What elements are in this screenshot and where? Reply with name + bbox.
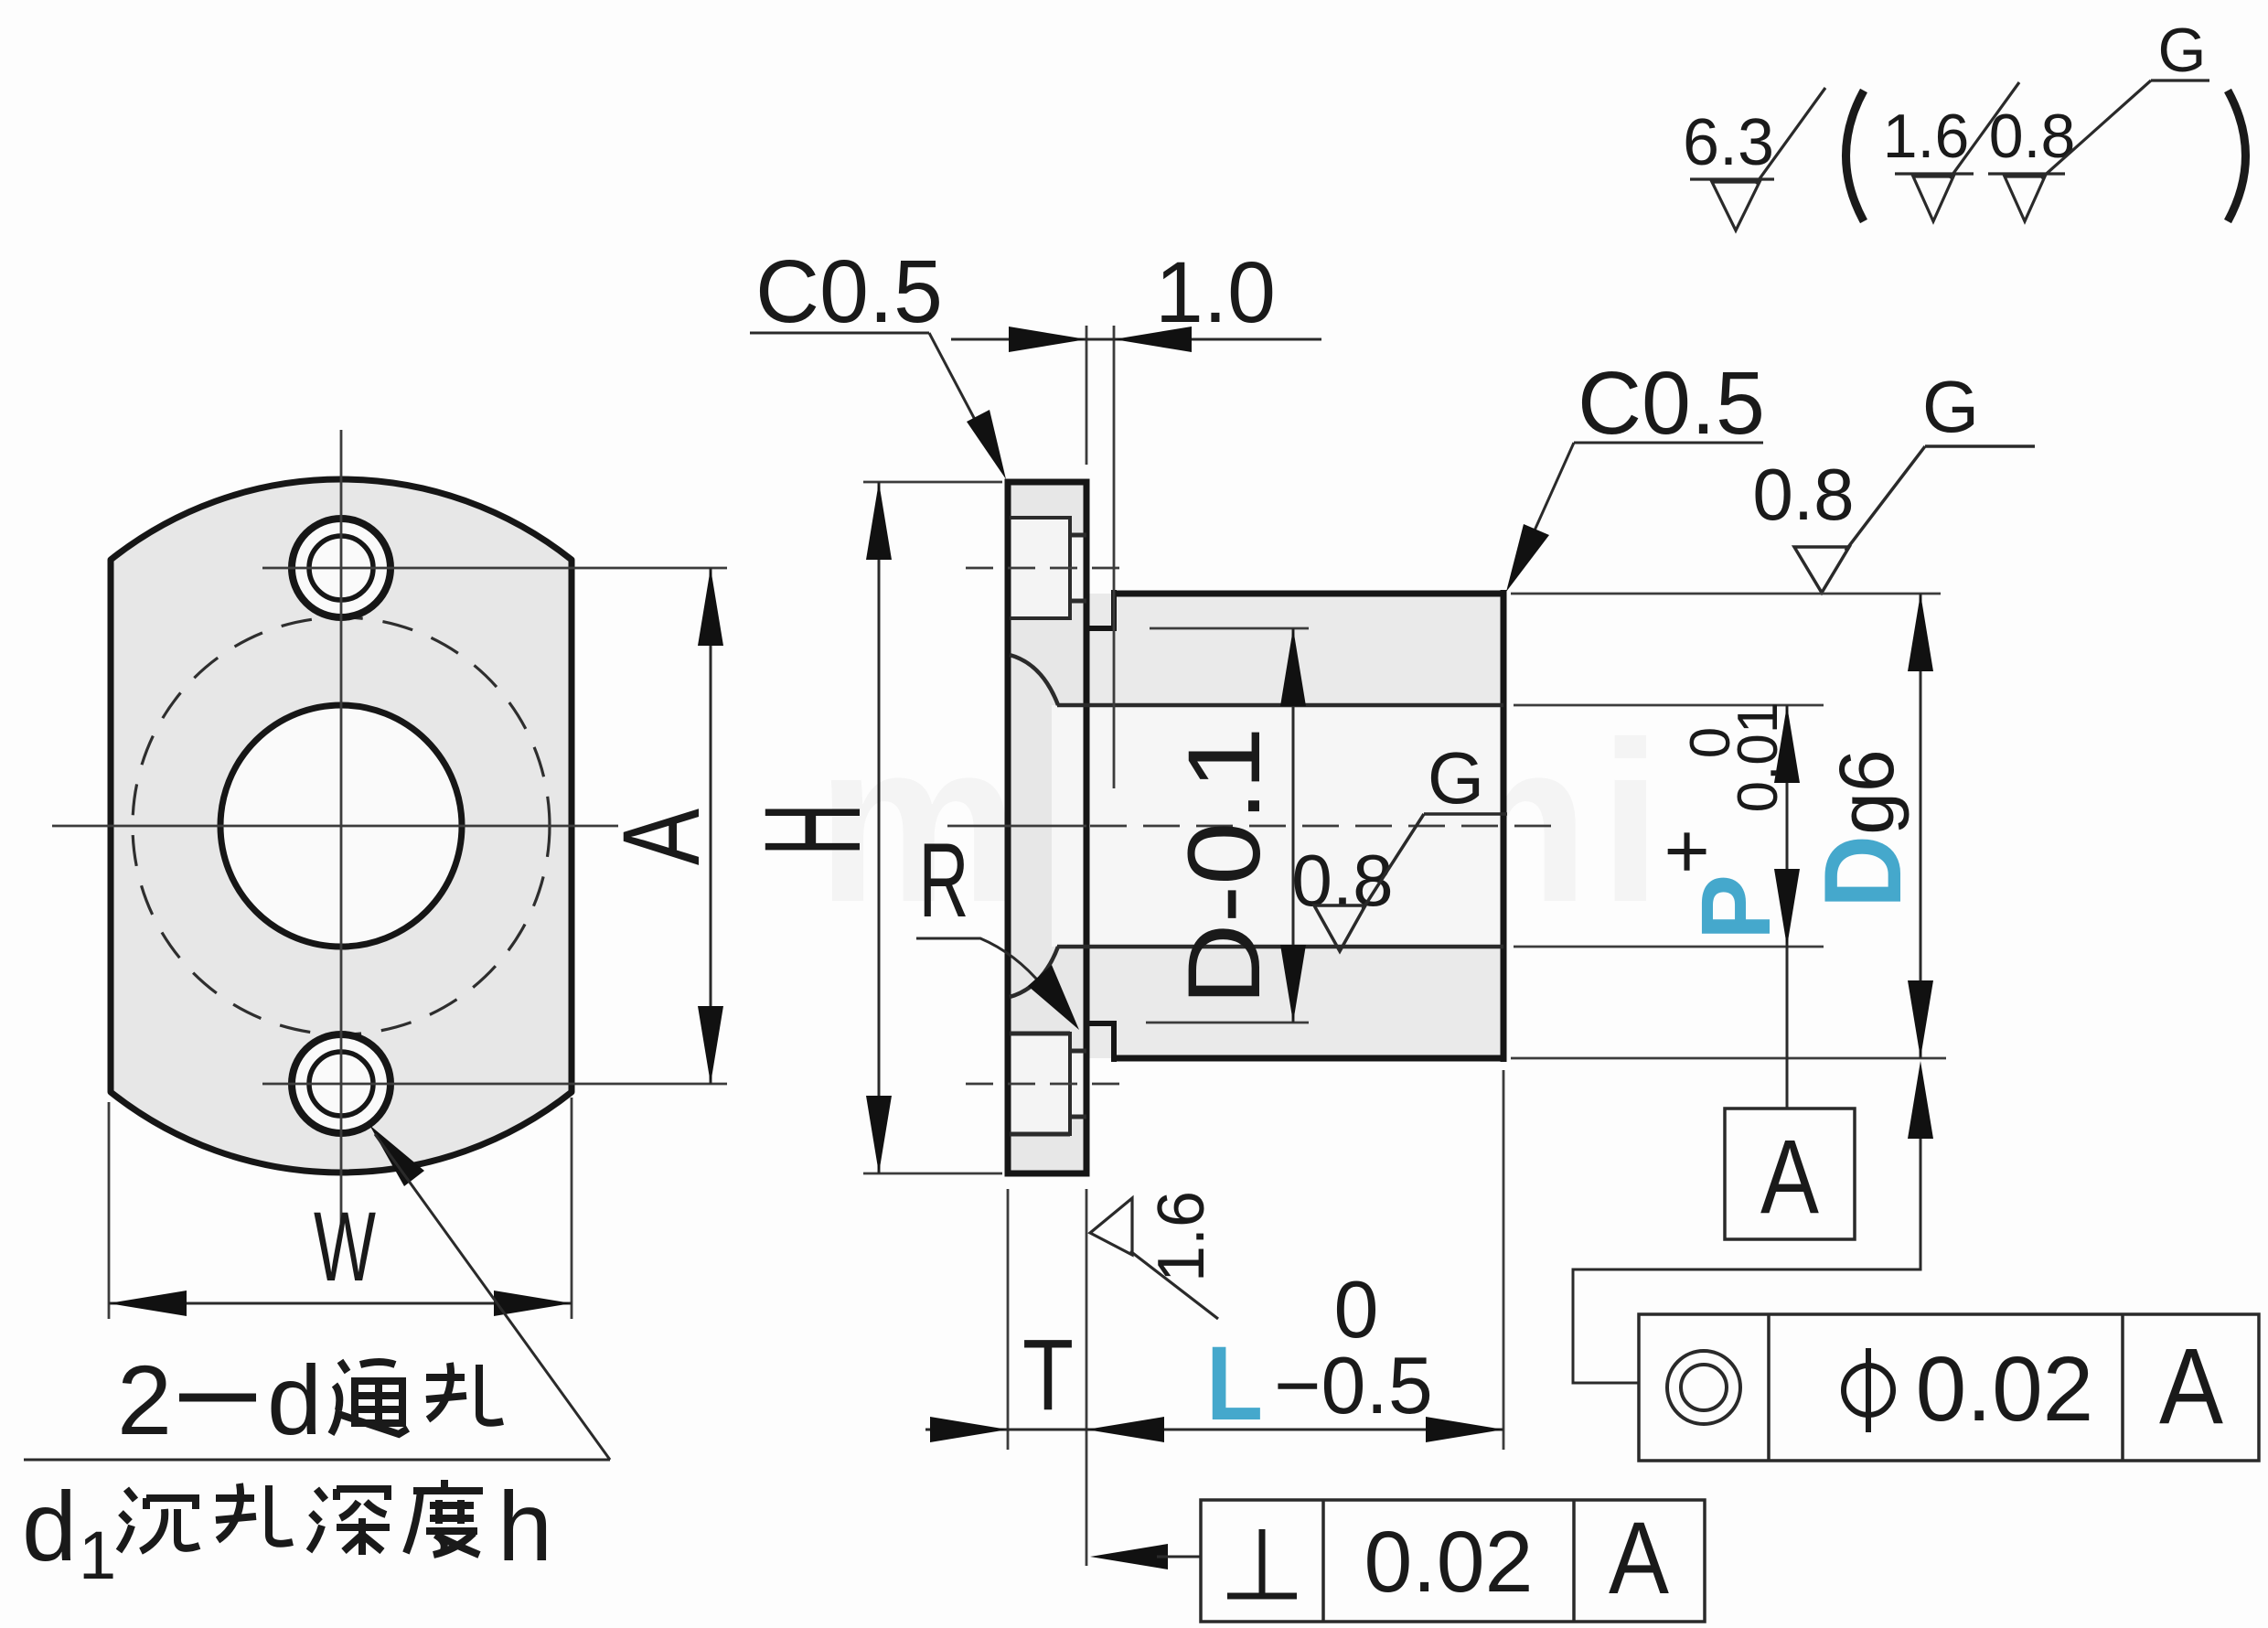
svg-text:A: A [1609,1501,1669,1615]
bottom bolt hole counterbore d1 [292,1034,390,1133]
C0.5 right leader underline [1574,442,1763,444]
CJK char shen (depth1) [309,1489,390,1555]
position tolerance frame [1639,1314,2259,1461]
top bolt hole d [309,536,373,600]
CJK char chen (sink) [119,1489,199,1551]
svg-text:A: A [1760,1119,1819,1236]
top counterbore section top line [1010,516,1070,519]
P bottom arrow [1774,869,1800,947]
0.8 underline [1988,172,2065,175]
svg-text:g6: g6 [1824,749,1910,834]
svg-text:R: R [919,822,969,939]
svg-text:1.6: 1.6 [1883,102,1970,171]
bore surface finish check [1314,905,1365,951]
svg-text:A: A [2159,1326,2223,1447]
cylinder bottom edge [1114,1055,1503,1062]
svg-text:D: D [1802,835,1924,908]
D-0.1 bottom extension [1146,1022,1309,1024]
bottom through hole air [1070,1051,1086,1117]
side axis centerline left part [947,825,1086,828]
bottom counterbore section bottom line [1010,1132,1070,1137]
svg-text:h: h [497,1471,552,1581]
bore air fill [1052,705,1503,947]
L right arrow [1426,1417,1503,1442]
P top arrow [1774,705,1800,783]
top hole centerline dashed [966,567,1127,570]
top through hole upper line [1070,533,1086,538]
top counterbore depth step [1068,516,1072,620]
CJK char kong (hole) [426,1363,503,1423]
P top extension [1514,704,1824,707]
close paren [2228,91,2246,221]
1.6 surface symbol leg [1130,1251,1218,1319]
1.6 slash [1950,82,2019,178]
bottom through hole upper line [1070,1049,1086,1054]
position tolerance leader arrow [1908,1061,1933,1139]
svg-text:H: H [735,803,889,856]
L extension (cylinder right face) [1503,1070,1505,1450]
top counterbore section bottom line [1010,616,1070,620]
R leader arrow [1028,965,1079,1030]
top through hole lower line [1070,599,1086,604]
svg-text:G: G [1922,366,1979,447]
concentricity symbol [1667,1351,1740,1424]
D-0.1 dimension line [1292,628,1295,1023]
leader 2-d line [375,1134,610,1460]
1.6 check triangle [1913,177,1953,221]
svg-text:−0.5: −0.5 [1274,1340,1433,1430]
top through hole air [1070,535,1086,601]
position tolerance leader [1573,1139,1920,1383]
T right / L left arrow [1086,1417,1164,1442]
bolt circle (cylinder D hidden circle) [133,617,550,1034]
D-0.1 top extension [1150,627,1309,630]
cylinder body fill [1086,594,1503,1058]
svg-text:W: W [314,1191,376,1301]
front horizontal centerline [52,825,618,828]
cylinder surface finish check [1794,547,1849,593]
G bar [2151,79,2209,81]
dimension A bottom arrow [698,1006,723,1084]
perpendicularity symbol [1227,1593,1297,1600]
center bore P front [220,705,462,947]
dimension A line [710,568,712,1084]
svg-text:0.02: 0.02 [1364,1514,1534,1611]
bore top line [1057,703,1503,708]
leader 2-d through hole arrow [369,1125,424,1186]
groove wall top (cylinder left face upper) [1111,590,1117,631]
bottom hole centerline dashed [966,1083,1127,1086]
D-0.1 top arrow [1280,628,1306,706]
phi symbol [1844,1366,1893,1415]
svg-text:G: G [1428,737,1484,819]
H bottom arrow [866,1096,892,1173]
svg-text:1: 1 [79,1517,116,1593]
svg-text:C0.5: C0.5 [1578,353,1765,453]
svg-text:+: + [1643,829,1730,874]
1.0 dimension line [951,338,1321,341]
svg-text:T: T [1022,1319,1074,1431]
top counterbore air [1010,518,1070,618]
CJK char du (depth2) [406,1480,483,1555]
svg-text:G: G [2158,16,2207,85]
groove top surface [1086,626,1117,631]
svg-text:0: 0 [1679,727,1742,758]
Dg6 bottom arrow [1908,980,1933,1058]
0.8 check triangle [2005,177,2045,221]
svg-text:d: d [267,1344,322,1455]
0.8 slash to G bar [2041,80,2151,178]
W extension line left [108,1102,111,1319]
6.3 slash [1756,88,1825,184]
svg-text:6.3: 6.3 [1683,106,1774,179]
svg-text:1.6: 1.6 [1145,1191,1218,1282]
extension line through top bolt hole [262,567,727,570]
1.0 dimension left extension (flange right face) [1086,326,1088,465]
P dimension line [1786,705,1789,1109]
P bottom extension [1514,946,1824,948]
W left arrow [109,1291,187,1316]
dimension A top arrow [698,568,723,646]
bore bottom line [1057,945,1503,949]
leader underline [24,1459,610,1462]
cylinder top edge [1114,591,1503,597]
T left arrow (outside) [930,1417,1008,1442]
bottom through hole lower line [1070,1115,1086,1119]
flange plate fill [1008,482,1086,1173]
groove wall bottom (cylinder left face lower) [1111,1021,1117,1062]
svg-text:0.8: 0.8 [1291,840,1393,921]
svg-text:C0.5: C0.5 [755,241,943,341]
cylinder surface finish leg [1845,446,1925,551]
svg-text:D-0.1: D-0.1 [1167,727,1281,1006]
top bolt hole counterbore d1 [292,519,390,617]
C0.5 left leader arrow [967,410,1006,479]
svg-text:2: 2 [117,1344,172,1455]
1.0 dimension right extension (cylinder left face) [1113,326,1116,788]
H top extension [863,481,1002,484]
CJK char tong (through) [331,1361,408,1434]
svg-text:1.0: 1.0 [1155,244,1276,341]
Dg6 dimension line [1920,594,1922,1058]
perpendicularity leader [1157,1556,1201,1558]
C0.5 left leader underline [750,332,929,335]
C0.5 left leader line [929,333,999,465]
svg-text:L: L [1206,1325,1263,1442]
W right arrow [494,1291,572,1316]
perpendicularity frame [1201,1500,1705,1622]
bore surface finish leg [1363,814,1424,909]
Dg6 top extension [1511,593,1941,595]
datum A box [1725,1109,1855,1239]
TL shared extension (flange right face) [1086,1189,1088,1566]
W dimension line [109,1302,572,1305]
1.6 underline [1895,172,1974,175]
1.0 right arrow [1114,327,1192,352]
Dg6 bottom extension [1511,1057,1946,1060]
svg-text:0.8: 0.8 [1752,454,1854,535]
open paren [1846,91,1865,221]
W extension line right [571,1098,573,1319]
groove bottom surface [1086,1021,1117,1026]
bore entry fillet top [1010,655,1058,705]
Dg6 top arrow [1908,594,1933,671]
bottom counterbore depth step [1068,1032,1072,1136]
6.3 underline [1690,177,1774,180]
bottom counterbore section top line [1010,1032,1070,1036]
T extension (flange left face) [1007,1189,1010,1450]
bottom counterbore air [1010,1034,1070,1134]
bottom bolt hole d [309,1052,373,1116]
H top arrow [866,482,892,560]
flange outline [1008,482,1086,1173]
svg-text:P: P [1680,874,1791,940]
TL dimension line [925,1429,1503,1431]
D-0.1 bottom arrow [1280,945,1306,1023]
1.6 surface symbol on flange face [1090,1198,1132,1255]
R leader line [916,938,1043,986]
cylinder right face [1501,590,1507,1062]
svg-text:d: d [22,1471,77,1581]
svg-text:A: A [600,809,722,865]
bore entry fillet bottom [1010,947,1058,997]
cylinder surface finish bar [1925,444,2035,448]
1.0 left arrow [1009,327,1086,352]
CJK char kong (hole) 2 [216,1483,293,1544]
H bottom extension [863,1173,1002,1175]
C0.5 right leader arrow [1506,524,1549,592]
side axis centerline dashed [1090,825,1555,828]
front vertical centerline [340,430,343,1230]
svg-text:0.02: 0.02 [1916,1338,2094,1441]
H dimension line [878,482,881,1173]
perpendicularity leader arrow [1090,1544,1168,1569]
bore surface finish bar [1424,812,1507,816]
flange body front [111,479,572,1173]
6.3 check triangle [1712,182,1760,230]
C0.5 right leader line [1518,443,1574,567]
extension line through bottom bolt hole [262,1083,727,1086]
